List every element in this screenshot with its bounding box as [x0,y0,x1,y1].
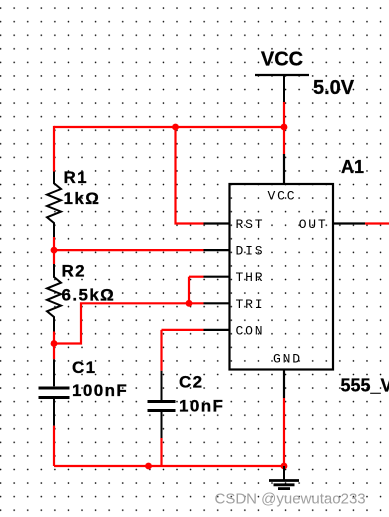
wire TRI [54,303,204,343]
svg-text:555_V: 555_V [341,376,389,396]
wire C1 top lead [53,344,55,360]
svg-text:GND: GND [273,352,302,367]
svg-text:VCC: VCC [261,49,303,71]
junction bottom rail C2 [145,463,152,470]
power VCC symbol [255,49,309,103]
label A1 [341,157,364,177]
wire RST branch [176,127,204,224]
pin DIS [204,244,265,259]
wire top rail from R1 top to VCC drop [54,126,284,128]
wire DIS [54,249,204,251]
ground [269,466,299,489]
wire R1 top lead [53,126,55,172]
watermark CSDN [215,491,366,508]
pin CON [204,323,265,338]
junction THR/TRI [186,300,193,307]
junction R1/R2/DIS node [51,247,58,254]
resistor R1 [47,172,61,238]
svg-text:1kΩ: 1kΩ [64,189,101,208]
resistor R2 [47,264,61,332]
svg-text:R1: R1 [64,168,89,187]
junction R2/C1/TRI node [51,340,58,347]
wire THR stub [189,276,204,278]
junction top rail / VCC drop [281,124,288,131]
svg-text:C1: C1 [72,358,97,377]
svg-text:100nF: 100nF [72,381,128,400]
pin VCC top stub [268,154,297,203]
svg-text:R2: R2 [62,262,87,281]
svg-text:10nF: 10nF [179,396,224,415]
wire GND drop [283,398,285,466]
wire C2 bottom lead [160,438,162,466]
wire VCC drop [283,102,285,155]
label R1 1kΩ [64,168,101,208]
pin GND bottom stub [273,352,302,398]
svg-text:TRI: TRI [236,297,265,312]
pin TRI [204,297,265,312]
wire R2 bottom lead [53,332,55,344]
label C1 100nF [72,358,128,400]
svg-text:C2: C2 [179,373,204,392]
label R2 6.5kΩ [62,262,116,305]
svg-text:VCC: VCC [268,188,297,203]
junction bottom rail GND [281,463,288,470]
wire OUT [365,222,389,224]
svg-text:CON: CON [236,323,265,338]
pin THR [204,270,265,285]
svg-text:THR: THR [236,270,265,285]
IC A1 555 timer body [230,184,334,370]
pin RST [204,217,265,232]
wire R1 bottom to R2 top [53,237,55,264]
svg-text:RST: RST [236,217,265,232]
pin OUT [299,217,365,232]
wire C1 bottom lead [53,426,55,466]
capacitor C1 [39,359,70,425]
junction top rail / RST branch [172,124,179,131]
label 555_VIRTUAL [341,376,389,396]
svg-text:6.5kΩ: 6.5kΩ [62,286,116,305]
label C2 10nF [179,373,224,416]
svg-text:5.0V: 5.0V [313,77,355,99]
wire CON [162,329,204,331]
label 5.0V [313,77,355,99]
svg-text:CSDN @yuewutao233: CSDN @yuewutao233 [215,491,366,508]
capacitor C2 [148,371,176,438]
svg-text:OUT: OUT [299,217,328,232]
svg-text:A1: A1 [341,157,364,177]
wire C2 top lead [160,330,162,371]
wire THR to TRI vertical [188,277,190,304]
wire bottom rail [54,465,284,467]
svg-text:DIS: DIS [236,244,265,259]
